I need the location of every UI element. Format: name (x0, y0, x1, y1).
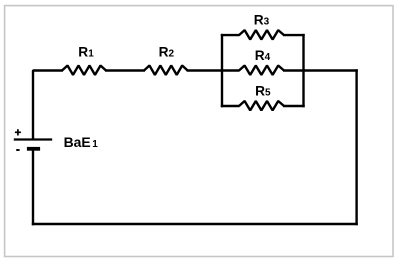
wire node A to R5 (221, 105, 240, 107)
wire node A to R3 (221, 34, 240, 36)
resistor R4 (239, 66, 284, 75)
wire bottom horizontal (32, 223, 358, 225)
svg-text:R5: R5 (255, 83, 271, 98)
battery BaE1 positive plate (14, 138, 52, 140)
svg-text:R1: R1 (78, 45, 94, 60)
wire battery negative to bottom-left corner (32, 149, 34, 226)
resistor R3 (239, 30, 284, 39)
wire node A to R4 (221, 69, 240, 71)
wire node B to top-right corner (304, 69, 358, 71)
battery minus sign (16, 149, 19, 151)
resistor R1 (62, 66, 106, 75)
node A left rail of parallel group (221, 34, 223, 107)
svg-text:R4: R4 (255, 48, 271, 63)
wire R2 to node A (187, 69, 222, 71)
svg-text:BaE1: BaE1 (64, 134, 99, 150)
wire R3 to node B (283, 34, 305, 36)
wire R1 to R2 (105, 69, 145, 71)
wire right vertical (355, 69, 357, 225)
resistor R5 (239, 101, 284, 110)
wire R4 to node B (283, 69, 305, 71)
svg-text:R2: R2 (159, 45, 175, 60)
node B right rail of parallel group (302, 34, 304, 107)
wire battery positive to R1 (left vertical + top-left segment) (33, 71, 63, 140)
battery plus sign (15, 129, 21, 135)
resistor R2 (144, 66, 188, 75)
svg-text:R3: R3 (254, 13, 270, 28)
battery BaE1 negative plate (27, 147, 40, 151)
wire R5 to node B (283, 105, 305, 107)
